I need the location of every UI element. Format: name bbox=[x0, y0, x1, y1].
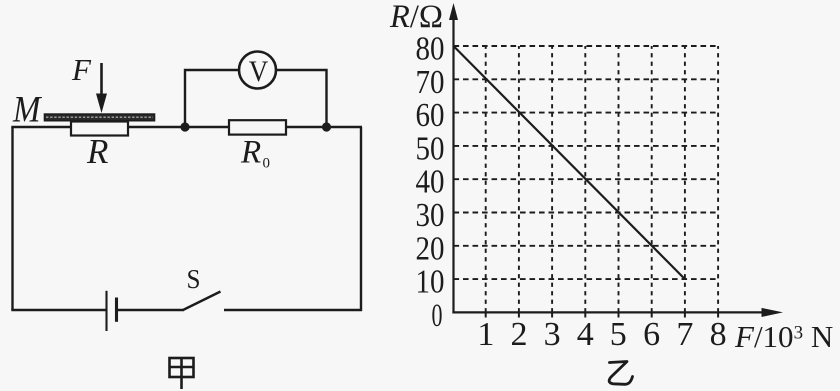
x-axis tick marks bbox=[486, 312, 718, 317]
svg-text:F: F bbox=[71, 52, 92, 87]
svg-text:8: 8 bbox=[710, 316, 727, 353]
y-axis arrowhead bbox=[449, 3, 458, 20]
svg-text:4: 4 bbox=[577, 316, 594, 353]
y tick labels bbox=[416, 31, 445, 335]
svg-text:R: R bbox=[86, 132, 108, 171]
svg-text:40: 40 bbox=[416, 164, 445, 201]
svg-text:5: 5 bbox=[610, 316, 627, 353]
svg-text:M: M bbox=[12, 90, 42, 131]
wire top main (R and R0 branch) bbox=[11, 126, 362, 128]
resistor R0 box bbox=[229, 120, 286, 134]
svg-text:S: S bbox=[187, 264, 201, 294]
svg-text:0: 0 bbox=[432, 298, 443, 334]
grid dashed horizontals bbox=[454, 46, 719, 279]
wire switch to right corner bbox=[224, 309, 362, 311]
svg-text:80: 80 bbox=[416, 31, 445, 68]
voltmeter U1 circle bbox=[239, 52, 276, 89]
junction node left bbox=[180, 122, 189, 131]
svg-text:30: 30 bbox=[416, 197, 445, 234]
svg-text:50: 50 bbox=[416, 130, 445, 167]
junction node right bbox=[322, 122, 331, 131]
svg-text:7: 7 bbox=[676, 316, 693, 353]
R vs F data line bbox=[454, 46, 685, 279]
force F arrow bbox=[96, 63, 107, 113]
caption jia bbox=[170, 358, 194, 389]
resistor R box bbox=[71, 122, 128, 136]
wire bottom left segment bbox=[11, 309, 106, 311]
pressure plate M bar bbox=[45, 114, 155, 121]
wire left vertical bbox=[11, 127, 13, 310]
svg-text:V: V bbox=[249, 55, 269, 88]
svg-text:10: 10 bbox=[416, 264, 445, 301]
x-axis arrowhead bbox=[762, 308, 784, 317]
wire right vertical bbox=[360, 127, 362, 311]
svg-text:70: 70 bbox=[416, 64, 445, 101]
battery long plate bbox=[105, 291, 107, 331]
svg-text:60: 60 bbox=[416, 97, 445, 134]
svg-text:20: 20 bbox=[416, 230, 445, 267]
wire battery to switch bbox=[117, 309, 185, 311]
switch S blade bbox=[183, 292, 221, 311]
svg-text:6: 6 bbox=[643, 316, 660, 353]
svg-text:1: 1 bbox=[477, 316, 494, 353]
x tick labels bbox=[477, 316, 726, 353]
svg-text:F/103 N: F/103 N bbox=[734, 319, 833, 354]
caption yi bbox=[609, 362, 632, 385]
grid dashed verticals bbox=[486, 46, 718, 312]
graph axes bbox=[452, 18, 770, 314]
svg-text:3: 3 bbox=[544, 316, 561, 353]
voltmeter branch wire bbox=[185, 70, 327, 128]
svg-text:0: 0 bbox=[263, 156, 271, 172]
svg-text:2: 2 bbox=[511, 316, 528, 353]
battery short plate bbox=[115, 298, 118, 322]
svg-text:R: R bbox=[240, 135, 261, 171]
